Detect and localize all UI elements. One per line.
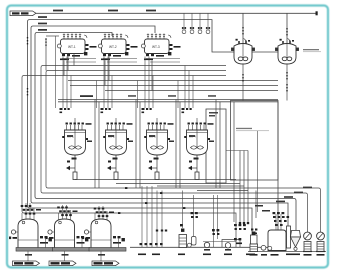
bypass pair RK-4	[216, 100, 220, 189]
cluster drop lines	[258, 131, 282, 230]
instrument feed RK-4	[177, 81, 179, 109]
filter stack S-1	[250, 232, 258, 256]
label over pair 2	[128, 95, 136, 97]
cyclone CY-1	[291, 231, 301, 256]
droppers RK-1	[63, 57, 71, 109]
tag TI-3	[198, 13, 202, 33]
dryer train D-1	[9, 203, 53, 266]
reactor side labels	[87, 141, 214, 143]
bottom process line	[130, 246, 278, 248]
mix vessel CP-1	[268, 230, 286, 256]
bypass pair RK-3	[176, 100, 180, 189]
note label right of V-2	[303, 49, 321, 52]
double header PRK A	[58, 99, 278, 101]
instrument feed RK-2	[96, 81, 98, 109]
tag cluster TC-1	[191, 212, 198, 218]
blower WB-2	[316, 232, 325, 256]
riser tick cluster C	[27, 88, 29, 95]
pipe L3 loop	[31, 26, 288, 227]
note label in T-2	[236, 128, 269, 131]
bus line valve marks	[118, 187, 185, 214]
valve cluster mid	[234, 238, 255, 255]
blower WB-1	[303, 232, 312, 256]
header pipe H6	[105, 60, 278, 90]
tag cluster TC-3	[234, 224, 246, 230]
transfer pipe B4	[197, 190, 248, 192]
nested pipe labels right	[255, 187, 312, 212]
svg-text:WT-3: WT-3	[152, 45, 160, 49]
downcomer reactor V-1	[242, 64, 244, 101]
reactor V-2	[276, 39, 299, 65]
svg-text:RK-2: RK-2	[108, 135, 115, 139]
vessel drain header WT-2	[103, 59, 137, 63]
transfer pipe B1	[75, 179, 236, 181]
transfer pipe B2	[116, 183, 240, 185]
tag TI-1	[182, 13, 186, 33]
vessel feed line L5	[46, 35, 59, 37]
label over pair 4	[208, 95, 216, 97]
label PRK 05 A	[80, 95, 93, 97]
right main riser	[277, 102, 279, 237]
svg-text:WT-2: WT-2	[109, 45, 117, 49]
tank box T-2	[231, 101, 279, 181]
instrument feed RK-1	[55, 36, 57, 108]
pump suction header	[203, 241, 236, 243]
vessel drain header WT-3	[146, 59, 180, 63]
header pipe H3 loop	[22, 60, 236, 247]
bypass pair RK-1	[95, 100, 99, 189]
right baseline	[248, 251, 326, 253]
droppers RK-2	[104, 57, 112, 109]
svg-text:WT-1: WT-1	[68, 45, 76, 49]
main header pipe	[36, 12, 317, 14]
bypass pair RK-2	[136, 100, 140, 189]
pump P-2	[224, 243, 232, 256]
reactor RK-3	[142, 108, 174, 180]
small pot C-1	[192, 195, 197, 245]
svg-text:RK-3: RK-3	[149, 135, 156, 139]
header pipe H1 loop	[41, 54, 308, 233]
riser tick cluster A	[27, 37, 29, 44]
drop pipes to scrubber	[142, 186, 162, 247]
filter column CF-1	[286, 226, 293, 255]
header label PR-05-03	[146, 10, 156, 12]
dryer interconnect drains	[16, 232, 119, 248]
pump PR-1	[261, 245, 267, 255]
vessel drain header WT-1	[62, 59, 96, 63]
L3 label	[38, 23, 47, 25]
header pipe H2 loop	[46, 38, 321, 232]
feed pipe reactor V-2	[286, 13, 288, 43]
vessel WT-3	[141, 34, 180, 61]
skid outline	[222, 240, 240, 248]
dryer train D-3	[82, 206, 126, 266]
reactor V-1	[232, 39, 255, 65]
droppers RK-4	[185, 66, 193, 109]
header end tick	[316, 11, 318, 15]
instrument feed RK-3	[137, 81, 139, 109]
mid descent bundle	[226, 150, 248, 152]
reactor interconnect pipe	[252, 51, 278, 53]
tag TI-2	[190, 13, 194, 33]
reactor RK-4	[182, 108, 214, 180]
header pipe H5	[70, 60, 278, 85]
reactor neck tags	[236, 39, 295, 42]
valve cluster on drop pipes	[138, 243, 163, 255]
L4 label	[38, 29, 47, 31]
svg-text:RK-4: RK-4	[189, 135, 196, 139]
L2 label	[38, 16, 47, 18]
double header PRK B	[58, 101, 278, 103]
droppers RK-3	[145, 57, 153, 109]
tag TI-4	[206, 13, 210, 33]
pump P-1	[203, 242, 211, 255]
bundle end valves	[239, 222, 258, 234]
reactor RK-1	[60, 108, 92, 180]
riser tick cluster B	[45, 39, 47, 46]
title pennant top-left	[10, 11, 36, 16]
pipe L4 loop	[35, 33, 296, 231]
box T-2 feed drop	[233, 102, 235, 222]
filter column F-1	[178, 191, 191, 256]
tank box T-1	[206, 109, 226, 183]
downcomer reactor V-2	[286, 64, 288, 101]
dryer train D-2	[46, 205, 90, 266]
label over pair 3	[168, 95, 176, 97]
reactor RK-2	[101, 108, 133, 180]
vessel WT-2	[98, 34, 137, 61]
header pipe H4	[68, 54, 278, 81]
vessel WT-1	[57, 34, 96, 61]
svg-text:RK-1: RK-1	[67, 135, 74, 139]
valve set V-set	[212, 229, 219, 235]
pipe L2 loop	[28, 20, 253, 247]
header label PR-05-01	[53, 10, 63, 12]
tank T-1 inner label	[209, 112, 218, 117]
drop pipe valves upper	[156, 230, 167, 232]
valve cluster VR-1	[273, 212, 290, 226]
transfer pipe B3	[157, 185, 244, 187]
header label PR-05-02	[108, 10, 118, 12]
feed pipe reactor V-1	[242, 13, 244, 43]
drop pipes mid2	[214, 195, 218, 247]
